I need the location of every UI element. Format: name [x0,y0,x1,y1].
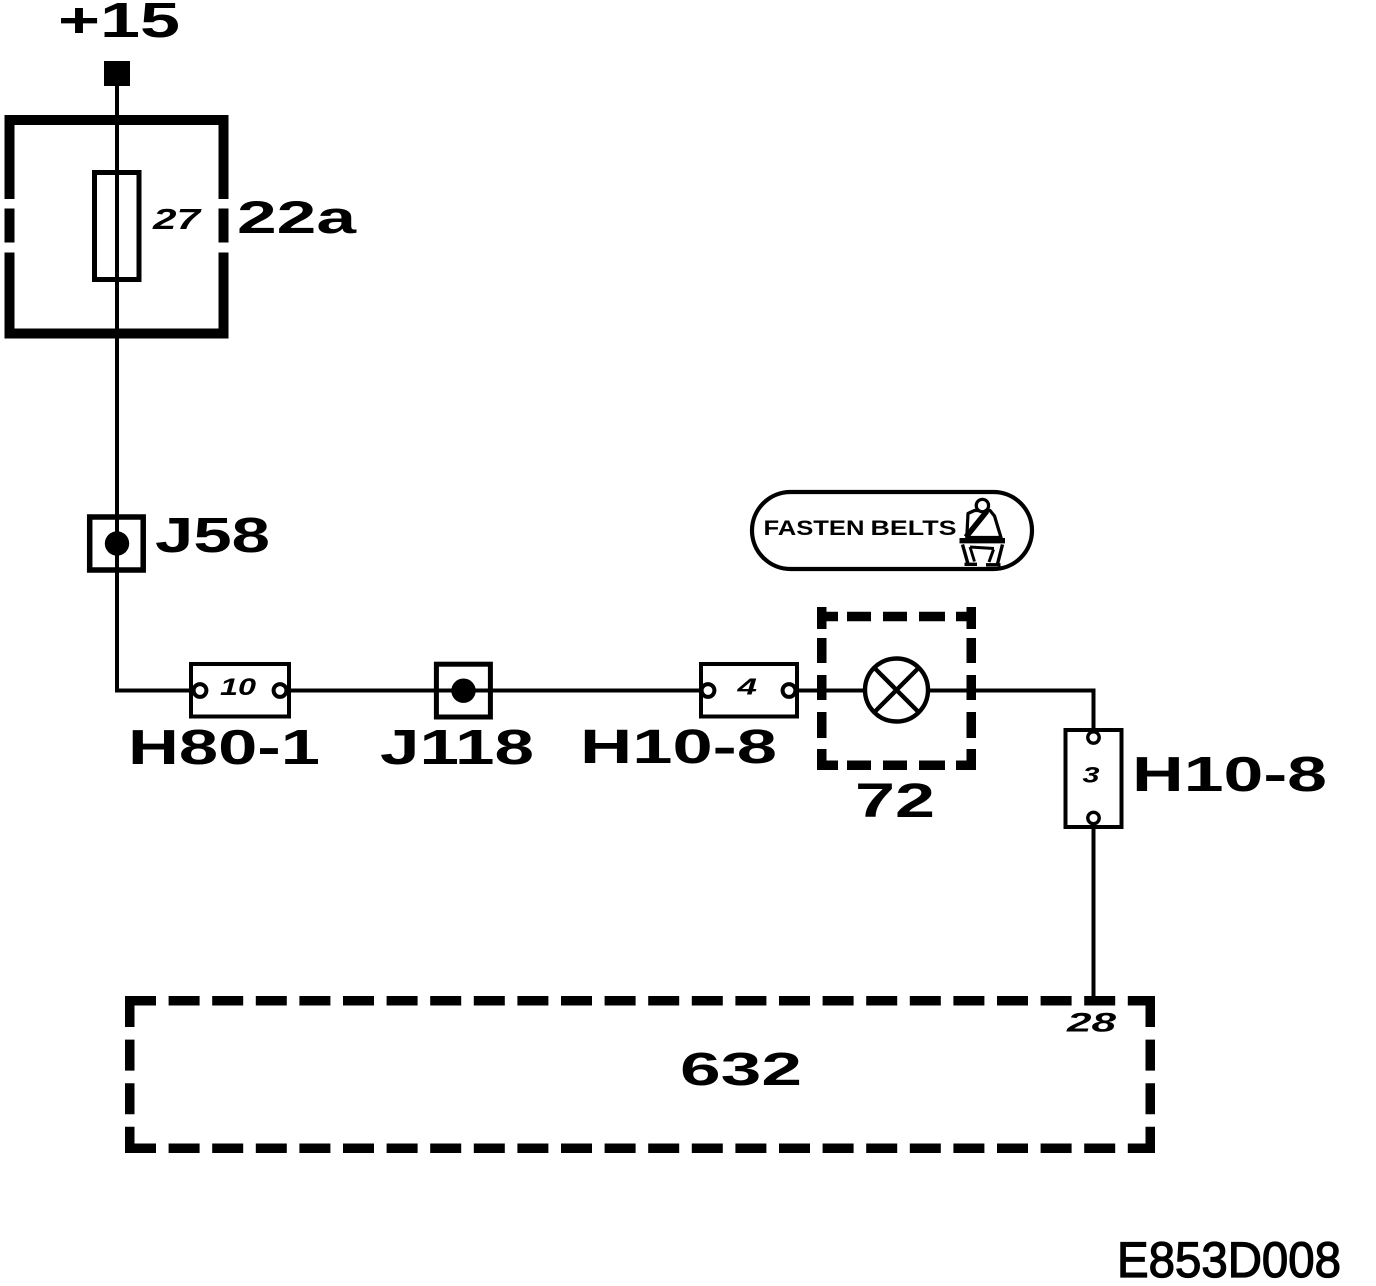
fuse box 22a [0,120,232,334]
svg-text:3: 3 [1083,763,1100,788]
connector H80-1 [191,664,289,717]
wire [1092,818,1096,1000]
wire [928,691,1094,738]
wire [115,689,200,693]
svg-text:H80-1: H80-1 [128,721,320,775]
svg-text:BELTS: BELTS [871,517,957,540]
svg-text:J118: J118 [380,721,534,775]
lamp 72 [865,659,928,722]
svg-text:4: 4 [736,673,757,699]
svg-text:H10-8: H10-8 [580,721,777,774]
dashed box 72 [817,607,976,770]
svg-text:J58: J58 [155,509,270,563]
svg-text:27: 27 [152,204,203,236]
svg-text:E853D008: E853D008 [1117,1232,1341,1286]
svg-text:28: 28 [1065,1007,1116,1037]
junction J118 [436,664,490,717]
wire [789,689,866,693]
svg-text:72: 72 [855,775,935,828]
svg-text:FASTEN: FASTEN [764,517,865,540]
svg-text:10: 10 [220,674,257,701]
junction J58 [90,517,144,570]
wire [280,689,708,693]
svg-text:22a: 22a [237,192,358,243]
node +15 terminal [104,61,130,86]
connector H10-8 pin 3 [1066,730,1122,827]
fuse 27 [95,173,140,280]
seat belt icon [960,499,1006,565]
wire [115,86,119,691]
connector H10-8 pin 4 [701,664,797,717]
fasten belts pill [752,492,1032,569]
dashed box 632 [125,996,1155,1153]
svg-text:632: 632 [680,1043,802,1095]
svg-text:H10-8: H10-8 [1132,748,1327,802]
svg-text:+15: +15 [58,0,180,48]
